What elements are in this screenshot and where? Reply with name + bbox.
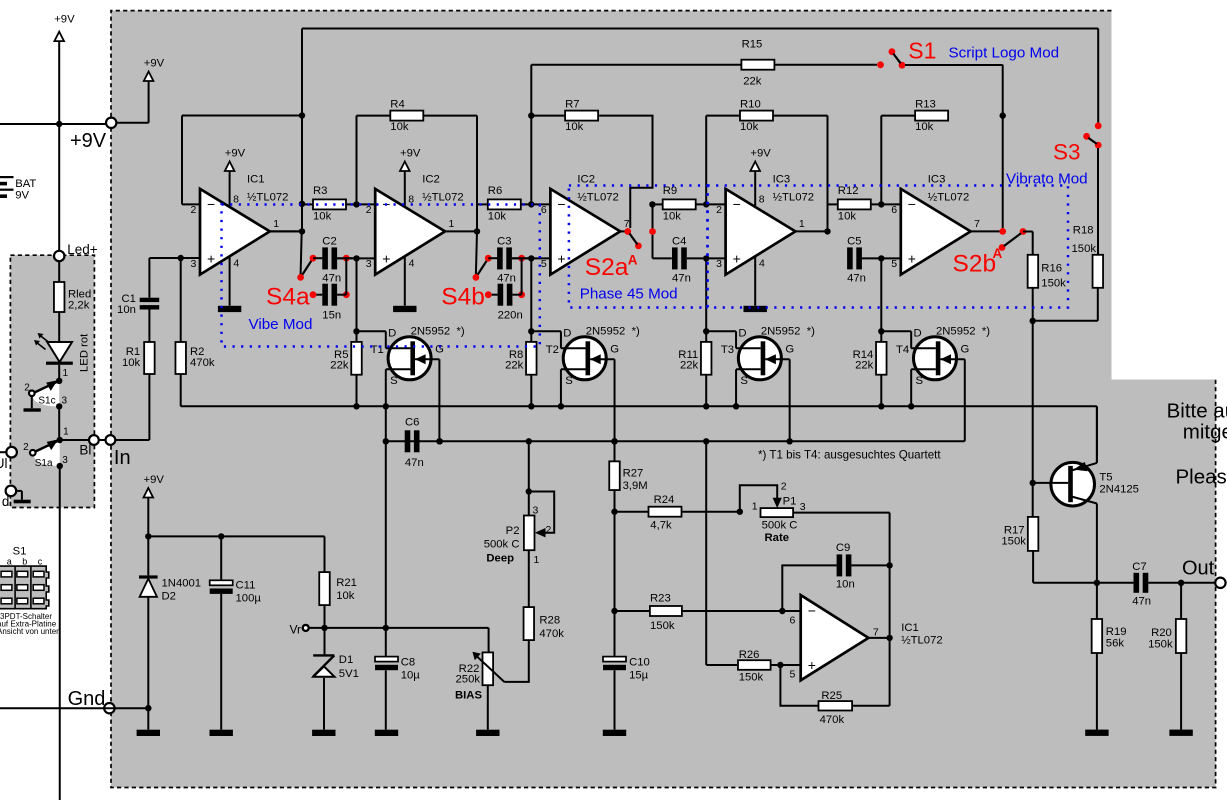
svg-text:220n: 220n	[498, 310, 523, 322]
svg-text:−: −	[207, 196, 215, 212]
svg-text:R27: R27	[623, 468, 644, 480]
svg-text:R16: R16	[1041, 263, 1062, 275]
svg-text:A: A	[993, 246, 1003, 261]
svg-text:470k: 470k	[539, 628, 564, 640]
svg-text:2N4125: 2N4125	[1099, 484, 1139, 496]
svg-text:IC2: IC2	[577, 173, 595, 185]
svg-text:1: 1	[799, 218, 805, 230]
svg-text:S4a: S4a	[266, 284, 310, 311]
svg-text:S: S	[740, 375, 748, 387]
svg-text:+9V: +9V	[144, 58, 165, 70]
svg-text:Phase 45 Mod: Phase 45 Mod	[580, 286, 678, 303]
svg-text:a: a	[7, 557, 12, 567]
svg-text:S2a: S2a	[585, 254, 629, 281]
svg-text:6: 6	[541, 204, 547, 216]
svg-text:In: In	[114, 447, 131, 469]
svg-text:47n: 47n	[1132, 596, 1151, 608]
svg-text:47n: 47n	[497, 272, 516, 284]
svg-text:C9: C9	[836, 542, 850, 554]
svg-text:10k: 10k	[565, 121, 584, 133]
svg-text:S: S	[915, 375, 923, 387]
svg-text:Ul: Ul	[0, 456, 8, 471]
svg-text:Deep: Deep	[486, 553, 514, 565]
svg-text:−: −	[557, 196, 565, 212]
svg-text:10k: 10k	[313, 211, 332, 223]
svg-text:D: D	[388, 328, 396, 340]
svg-text:+: +	[207, 251, 215, 267]
svg-text:C11: C11	[236, 580, 256, 592]
svg-text:C8: C8	[401, 657, 415, 669]
svg-text:10µ: 10µ	[401, 670, 421, 682]
svg-text:9V: 9V	[15, 190, 29, 202]
svg-text:c: c	[38, 557, 43, 567]
svg-text:½TL072: ½TL072	[773, 191, 814, 203]
svg-text:IC3: IC3	[928, 173, 946, 185]
svg-text:R4: R4	[390, 98, 404, 110]
svg-text:S1: S1	[908, 38, 936, 64]
svg-text:BIAS: BIAS	[455, 690, 482, 702]
svg-text:R26: R26	[739, 649, 760, 661]
svg-text:Bitte auch diesen: Bitte auch diesen	[1167, 400, 1227, 423]
svg-text:2N5952 *): 2N5952 *)	[411, 326, 465, 338]
svg-text:R21: R21	[336, 577, 357, 589]
svg-text:2: 2	[23, 442, 29, 453]
svg-text:R20: R20	[1151, 627, 1172, 639]
svg-text:3: 3	[366, 258, 372, 270]
svg-text:+: +	[557, 251, 565, 267]
svg-text:T2: T2	[546, 344, 559, 356]
svg-text:10k: 10k	[663, 211, 682, 223]
svg-text:22k: 22k	[680, 359, 699, 371]
svg-text:10k: 10k	[740, 121, 759, 133]
svg-text:+9V: +9V	[70, 130, 107, 152]
svg-text:T4: T4	[896, 344, 909, 356]
svg-text:IC2: IC2	[422, 173, 440, 185]
svg-text:C4: C4	[672, 235, 686, 247]
svg-text:D2: D2	[162, 591, 176, 603]
svg-text:R15: R15	[742, 39, 763, 51]
svg-text:10k: 10k	[915, 121, 934, 133]
svg-text:C6: C6	[405, 417, 419, 429]
svg-text:R24: R24	[654, 494, 675, 506]
svg-text:T1: T1	[371, 344, 384, 356]
svg-text:Rate: Rate	[765, 532, 790, 544]
svg-text:C5: C5	[847, 235, 861, 247]
svg-text:150k: 150k	[1148, 639, 1173, 651]
svg-text:+9V: +9V	[143, 474, 164, 486]
svg-text:d: d	[2, 494, 10, 509]
svg-text:S1c: S1c	[38, 395, 55, 406]
svg-text:T5: T5	[1099, 472, 1112, 484]
svg-text:A: A	[628, 253, 638, 268]
svg-text:3: 3	[62, 455, 68, 466]
svg-text:500k C: 500k C	[484, 539, 520, 551]
svg-text:+9V: +9V	[54, 14, 75, 26]
svg-text:2: 2	[191, 204, 197, 216]
svg-text:½TL072: ½TL072	[928, 191, 969, 203]
svg-text:47n: 47n	[405, 457, 424, 469]
svg-text:1: 1	[534, 554, 540, 566]
svg-text:C2: C2	[322, 235, 336, 247]
svg-text:10k: 10k	[336, 590, 355, 602]
svg-text:IC1: IC1	[247, 173, 265, 185]
svg-text:7: 7	[873, 627, 879, 639]
svg-text:Ansicht von unten: Ansicht von unten	[0, 627, 61, 636]
svg-text:4: 4	[759, 258, 765, 270]
svg-text:Led+: Led+	[67, 242, 98, 257]
svg-text:150k: 150k	[1001, 536, 1026, 548]
svg-text:R19: R19	[1106, 626, 1127, 638]
svg-text:BAT: BAT	[15, 178, 36, 190]
svg-text:+9V: +9V	[225, 148, 246, 160]
svg-text:+: +	[733, 251, 741, 267]
svg-text:R12: R12	[838, 185, 859, 197]
svg-text:+9V: +9V	[400, 148, 421, 160]
svg-text:3: 3	[191, 258, 197, 270]
svg-text:P2: P2	[506, 525, 520, 537]
svg-text:S3: S3	[1053, 139, 1081, 164]
svg-text:Script Logo Mod: Script Logo Mod	[949, 45, 1060, 62]
svg-text:½TL072: ½TL072	[247, 191, 288, 203]
svg-text:3: 3	[800, 501, 806, 513]
svg-text:3: 3	[62, 395, 68, 406]
svg-text:5V1: 5V1	[339, 668, 359, 680]
svg-text:8: 8	[759, 193, 765, 205]
svg-text:10k: 10k	[122, 357, 141, 369]
svg-text:4: 4	[409, 258, 415, 270]
svg-text:47n: 47n	[672, 272, 691, 284]
svg-text:1: 1	[63, 427, 69, 438]
svg-text:b: b	[22, 557, 27, 567]
svg-text:10k: 10k	[838, 211, 857, 223]
svg-text:½TL072: ½TL072	[901, 634, 942, 646]
svg-text:R23: R23	[650, 593, 671, 605]
svg-text:G: G	[960, 344, 969, 356]
svg-text:5: 5	[789, 668, 795, 680]
svg-text:R18: R18	[1073, 225, 1094, 237]
svg-text:7: 7	[974, 218, 980, 230]
svg-text:470k: 470k	[820, 714, 845, 726]
svg-text:2N5952 *): 2N5952 *)	[761, 326, 815, 338]
svg-text:S: S	[565, 375, 573, 387]
svg-text:R9: R9	[663, 185, 677, 197]
svg-text:2: 2	[716, 204, 722, 216]
svg-text:R7: R7	[565, 98, 579, 110]
svg-text:mitgeben.: mitgeben.	[1183, 421, 1227, 444]
svg-text:D: D	[913, 328, 921, 340]
svg-text:½TL072: ½TL072	[422, 191, 463, 203]
svg-text:R6: R6	[488, 185, 502, 197]
svg-text:+: +	[808, 657, 816, 673]
svg-text:Bl: Bl	[79, 443, 91, 458]
svg-text:5: 5	[541, 258, 547, 270]
svg-text:Vibe Mod: Vibe Mod	[249, 316, 313, 333]
svg-text:−: −	[808, 602, 816, 618]
svg-text:10k: 10k	[390, 121, 409, 133]
svg-text:R3: R3	[313, 185, 327, 197]
svg-text:22k: 22k	[330, 359, 349, 371]
svg-text:S2b: S2b	[953, 251, 997, 278]
svg-text:2: 2	[24, 383, 30, 394]
svg-text:47n: 47n	[847, 272, 866, 284]
svg-text:Please also: Please also	[1176, 465, 1227, 488]
svg-text:R10: R10	[740, 98, 761, 110]
svg-text:Out: Out	[1182, 557, 1215, 579]
svg-text:IC3: IC3	[773, 173, 791, 185]
svg-text:4,7k: 4,7k	[650, 520, 672, 532]
svg-text:500k C: 500k C	[762, 520, 798, 532]
svg-text:½TL072: ½TL072	[577, 191, 618, 203]
svg-text:150k: 150k	[650, 620, 675, 632]
svg-text:2N5952 *): 2N5952 *)	[586, 326, 640, 338]
svg-text:3: 3	[716, 258, 722, 270]
svg-text:S1a: S1a	[35, 458, 53, 469]
svg-text:47n: 47n	[322, 272, 341, 284]
svg-text:1: 1	[449, 218, 455, 230]
svg-text:2,2k: 2,2k	[68, 300, 90, 312]
svg-text:D1: D1	[339, 654, 353, 666]
svg-text:6: 6	[789, 615, 795, 627]
svg-text:G: G	[785, 344, 794, 356]
svg-text:8: 8	[233, 193, 239, 205]
svg-text:22k: 22k	[855, 359, 874, 371]
svg-text:250k: 250k	[456, 674, 481, 686]
svg-text:10n: 10n	[836, 579, 855, 591]
svg-text:5: 5	[891, 258, 897, 270]
svg-text:IC1: IC1	[901, 622, 919, 634]
svg-text:G: G	[610, 344, 619, 356]
svg-text:R13: R13	[915, 98, 936, 110]
svg-text:150k: 150k	[1072, 243, 1097, 255]
svg-text:2N5952 *): 2N5952 *)	[936, 326, 990, 338]
svg-text:+9V: +9V	[750, 148, 771, 160]
svg-text:R28: R28	[539, 615, 560, 627]
svg-text:1N4001: 1N4001	[162, 578, 202, 590]
svg-text:T3: T3	[721, 344, 734, 356]
svg-text:3: 3	[533, 505, 539, 517]
svg-text:1: 1	[63, 368, 69, 379]
svg-text:C7: C7	[1132, 561, 1146, 573]
svg-text:4: 4	[233, 258, 239, 270]
svg-text:P1: P1	[783, 495, 797, 507]
svg-text:10k: 10k	[488, 211, 507, 223]
svg-text:−: −	[733, 196, 741, 212]
svg-text:2: 2	[781, 481, 787, 493]
svg-text:1: 1	[752, 501, 758, 513]
svg-text:S: S	[390, 375, 398, 387]
svg-text:C3: C3	[497, 235, 511, 247]
svg-text:10n: 10n	[117, 304, 136, 316]
svg-text:D: D	[738, 328, 746, 340]
svg-text:15n: 15n	[322, 310, 341, 322]
svg-text:C10: C10	[629, 657, 650, 669]
svg-text:+: +	[382, 251, 390, 267]
svg-text:6: 6	[891, 204, 897, 216]
svg-text:+: +	[908, 251, 916, 267]
svg-text:Vr: Vr	[289, 623, 301, 637]
svg-text:100µ: 100µ	[236, 593, 262, 605]
svg-text:22k: 22k	[505, 359, 524, 371]
svg-text:15µ: 15µ	[629, 670, 649, 682]
svg-text:*) T1 bis T4: ausgesuchtes Qua: *) T1 bis T4: ausgesuchtes Quartett	[758, 449, 941, 462]
svg-text:22k: 22k	[743, 75, 762, 87]
svg-text:150k: 150k	[1041, 278, 1066, 290]
svg-text:150k: 150k	[739, 671, 764, 683]
svg-text:LED rot: LED rot	[79, 333, 91, 372]
svg-text:R25: R25	[821, 690, 842, 702]
svg-text:7: 7	[624, 218, 630, 230]
svg-text:3,9M: 3,9M	[623, 480, 648, 492]
svg-text:−: −	[908, 196, 916, 212]
svg-text:Gnd: Gnd	[68, 688, 106, 710]
svg-text:56k: 56k	[1106, 638, 1125, 650]
svg-text:D: D	[563, 328, 571, 340]
svg-text:S4b: S4b	[441, 284, 485, 311]
svg-text:1: 1	[273, 218, 279, 230]
svg-text:470k: 470k	[190, 357, 215, 369]
svg-text:2: 2	[546, 524, 552, 536]
